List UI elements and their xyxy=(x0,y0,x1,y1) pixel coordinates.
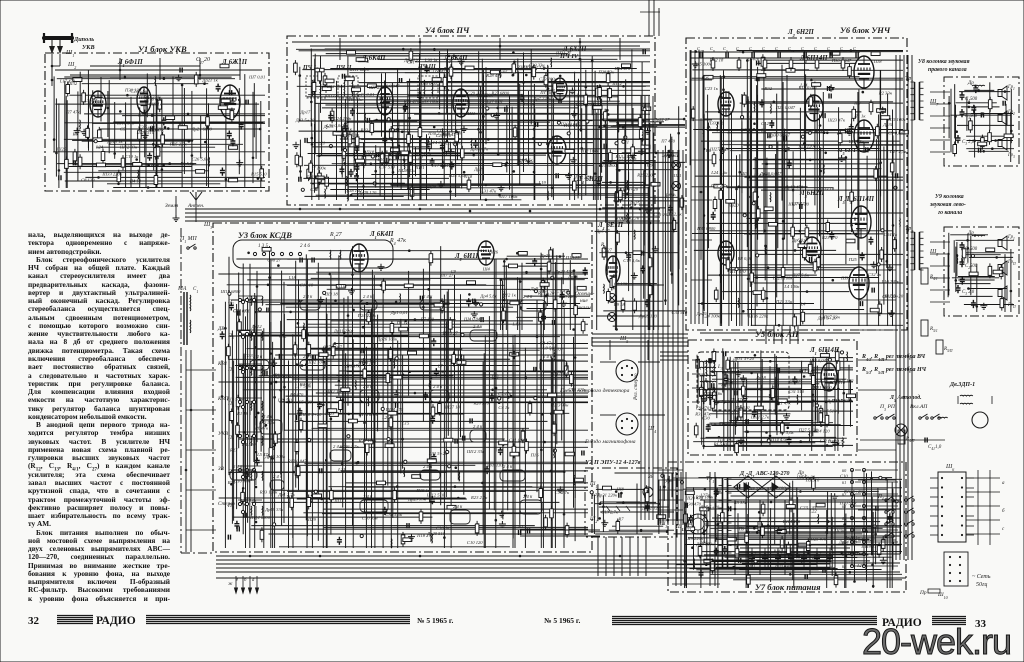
svg-text:2 4 6: 2 4 6 xyxy=(363,294,373,299)
lamp Л7 xyxy=(672,182,681,191)
tube Л1 6Е1П xyxy=(606,256,620,284)
svg-text:Др26 100к: Др26 100к xyxy=(376,337,398,342)
svg-text:Др31: Др31 xyxy=(882,122,893,127)
svg-text:П32 220к: П32 220к xyxy=(574,175,594,180)
svg-text:П5 510: П5 510 xyxy=(805,477,820,482)
svg-text:Др19 100к: Др19 100к xyxy=(264,454,286,459)
bottom terminals ж-а xyxy=(228,576,259,593)
svg-text:L19: L19 xyxy=(512,322,521,327)
output tube Л6 6П14П xyxy=(851,206,871,238)
svg-text:C30 33н: C30 33н xyxy=(529,63,545,68)
svg-text:L21: L21 xyxy=(381,415,389,420)
У6 left vertical bundle xyxy=(691,50,712,324)
lamp Вкл АП xyxy=(895,424,907,436)
svg-text:R2 5+20: R2 5+20 xyxy=(537,291,555,296)
tube Л3 6Н2П b xyxy=(803,237,821,263)
cap C3 xyxy=(956,135,961,143)
block У4 ПЧ border xyxy=(287,36,655,205)
У7 right terminal ladders xyxy=(842,468,898,569)
wires У6 xyxy=(690,49,908,329)
speaker Гр4 xyxy=(998,236,1007,250)
svg-text:R28 510: R28 510 xyxy=(473,401,490,406)
svg-text:Ш11 6800: Ш11 6800 xyxy=(349,67,370,72)
wire antenna feed xyxy=(51,66,53,86)
wires У8 xyxy=(948,82,1014,162)
У7 cable runs xyxy=(700,500,900,575)
multi-pin connector Ш6 xyxy=(930,464,974,542)
svg-text:Земля: Земля xyxy=(165,203,179,209)
svg-text:R2 33н: R2 33н xyxy=(878,90,893,95)
dipole antenna УКВ xyxy=(44,33,72,80)
svg-text:ДВ: ДВ xyxy=(217,326,225,332)
svg-text:Др11 220к: Др11 220к xyxy=(333,329,355,334)
svg-text:L21: L21 xyxy=(491,374,499,379)
svg-text:L7: L7 xyxy=(437,364,444,369)
svg-text:R24 510: R24 510 xyxy=(829,380,846,385)
svg-text:L19: L19 xyxy=(538,180,547,185)
svg-text:L19 1к: L19 1к xyxy=(148,102,163,107)
svg-text:Ш13 33н: Ш13 33н xyxy=(550,402,569,407)
svg-text:Ш21 27: Ш21 27 xyxy=(555,50,572,55)
svg-text:L9 510: L9 510 xyxy=(542,345,557,350)
wires to top edge xyxy=(640,0,660,36)
motor coil Дв xyxy=(958,395,992,404)
svg-text:R30: R30 xyxy=(137,113,146,118)
svg-text:2 4 6: 2 4 6 xyxy=(473,424,483,429)
tube Л2 6Н2П a xyxy=(718,92,734,116)
svg-text:Др31 5+20: Др31 5+20 xyxy=(732,356,755,361)
svg-text:П21 33н: П21 33н xyxy=(775,299,793,304)
output transformer Тр2 xyxy=(911,232,924,270)
svg-text:П25: П25 xyxy=(848,257,858,262)
svg-text:Ш26: Ш26 xyxy=(488,250,499,255)
svg-text:R9 18: R9 18 xyxy=(613,302,626,307)
svg-text:R7 120: R7 120 xyxy=(420,316,435,321)
svg-text:Др20: Др20 xyxy=(728,203,740,208)
svg-text:Ш14 6800: Ш14 6800 xyxy=(249,515,270,520)
turntable pickup circle xyxy=(600,487,653,511)
svg-text:C5 47к: C5 47к xyxy=(498,391,512,396)
svg-text:Ш5 33н: Ш5 33н xyxy=(346,97,363,102)
output tube Л5 6П14П xyxy=(854,120,874,152)
svg-text:C17: C17 xyxy=(347,135,355,140)
svg-text:Ш3: Ш3 xyxy=(740,171,749,176)
svg-text:R6: R6 xyxy=(72,132,79,137)
svg-text:R30 470: R30 470 xyxy=(685,501,702,506)
svg-text:Др26: Др26 xyxy=(567,274,579,279)
svg-text:C9: C9 xyxy=(451,269,457,274)
svg-text:65: 65 xyxy=(842,528,846,533)
svg-text:C33 100к: C33 100к xyxy=(770,486,789,491)
svg-text:Ш10 27: Ш10 27 xyxy=(442,331,459,336)
dial lamp Л9 xyxy=(608,313,617,322)
svg-text:Др33 100к: Др33 100к xyxy=(418,99,440,104)
switch contacts АП xyxy=(860,414,948,451)
bus wires middle right xyxy=(592,334,688,360)
svg-text:Гнездо магнитофона: Гнездо магнитофона xyxy=(584,438,636,445)
svg-text:C10: C10 xyxy=(840,473,848,478)
svg-text:R17 5+20: R17 5+20 xyxy=(884,294,904,299)
svg-text:Ш27 220к: Ш27 220к xyxy=(709,146,730,151)
svg-text:2 4 6: 2 4 6 xyxy=(303,354,313,359)
IF transformer ПЧI xyxy=(306,76,326,98)
svg-text:L4 1к: L4 1к xyxy=(523,102,535,107)
tube Л2 6Н2П b xyxy=(805,95,823,121)
block У3 КСДВ border xyxy=(213,223,592,552)
svg-text:Др24 470: Др24 470 xyxy=(838,539,858,544)
svg-text:R32: R32 xyxy=(764,86,773,91)
svg-text:Ш28 33н: Ш28 33н xyxy=(397,168,416,173)
svg-text:C20: C20 xyxy=(415,155,423,160)
svg-text:Вкл.АП: Вкл.АП xyxy=(910,404,928,410)
У7 left vertical wires xyxy=(672,472,720,586)
block У6 УНЧ border xyxy=(686,38,907,330)
svg-text:У6 блок УНЧ: У6 блок УНЧ xyxy=(840,25,891,35)
lamp Л6 xyxy=(672,161,681,170)
svg-text:20-wek.ru: 20-wek.ru xyxy=(862,621,1011,662)
svg-text:П18 27: П18 27 xyxy=(416,533,431,538)
tube Л3 6Н2П a xyxy=(718,241,734,265)
svg-text:П33 470: П33 470 xyxy=(707,120,725,125)
svg-text:П11 33н: П11 33н xyxy=(428,370,445,375)
block У9 border xyxy=(944,227,1019,316)
svg-text:R7: R7 xyxy=(617,517,624,522)
tube Л1 triode b xyxy=(137,87,151,113)
svg-text:R25 470: R25 470 xyxy=(403,99,420,104)
svg-text:№ 5 1965 г.: № 5 1965 г. xyxy=(544,616,580,625)
svg-text:Др29 470: Др29 470 xyxy=(554,269,574,274)
svg-text:C9 470: C9 470 xyxy=(696,405,710,410)
svg-text:2 4 6: 2 4 6 xyxy=(473,324,483,329)
cap C5 500 xyxy=(960,109,965,117)
footer rule right a xyxy=(612,617,877,625)
tube Л2 6К4П xyxy=(453,89,469,117)
svg-text:R15 510: R15 510 xyxy=(250,171,267,176)
svg-text:C21: C21 xyxy=(772,383,780,388)
svg-text:Др13 1к: Др13 1к xyxy=(106,139,123,144)
svg-text:У8 колонка звуковая: У8 колонка звуковая xyxy=(918,59,970,65)
svg-text:2 4 6: 2 4 6 xyxy=(333,444,343,449)
vertical bus Рег стерео xyxy=(641,96,653,520)
svg-text:2 4 6: 2 4 6 xyxy=(253,354,263,359)
svg-text:Ш23 47к: Ш23 47к xyxy=(827,118,846,123)
svg-text:L14 220к: L14 220к xyxy=(753,172,772,177)
svg-text:У5 блок АП: У5 блок АП xyxy=(755,329,799,339)
svg-text:R13 510: R13 510 xyxy=(615,154,632,159)
svg-text:C23 1к: C23 1к xyxy=(705,86,719,91)
svg-text:Ш32: Ш32 xyxy=(67,81,78,86)
speaker Гр6 xyxy=(998,286,1007,300)
right side vertical bus xyxy=(858,55,912,560)
svg-text:2 4 6: 2 4 6 xyxy=(363,494,373,499)
П1 contact box КСДВ xyxy=(233,240,393,268)
fuse Пр xyxy=(928,589,940,593)
coil column left КСДВ xyxy=(241,296,262,523)
svg-text:C1 6800: C1 6800 xyxy=(429,69,445,74)
contact group boxes КСДВ xyxy=(230,294,567,524)
svg-text:Др5 27: Др5 27 xyxy=(595,229,610,234)
wires У2 xyxy=(588,473,674,534)
svg-text:П11 470: П11 470 xyxy=(729,269,746,274)
block У1 УКВ border xyxy=(45,53,269,191)
svg-text:C17 510: C17 510 xyxy=(379,165,395,170)
block У2 ЭПУ border xyxy=(585,468,677,537)
svg-text:Ш4: Ш4 xyxy=(482,267,491,272)
band switch column labels xyxy=(217,326,235,507)
speaker Гр2 xyxy=(998,111,1007,125)
svg-text:L18: L18 xyxy=(288,275,297,280)
block У5 АП border xyxy=(688,340,857,455)
svg-text:Др8 100к: Др8 100к xyxy=(695,542,715,547)
connector Гнездо полярного детектора xyxy=(600,340,660,382)
svg-text:Ш8 33н: Ш8 33н xyxy=(747,486,764,491)
speaker wiring extra У9 xyxy=(930,242,950,302)
svg-text:У3 блок КСДВ: У3 блок КСДВ xyxy=(238,230,292,240)
svg-text:Ш17 1к: Ш17 1к xyxy=(325,388,342,393)
svg-text:Ш12 33н: Ш12 33н xyxy=(466,449,485,454)
svg-text:1 3 5: 1 3 5 xyxy=(258,244,269,249)
speaker Гр1 xyxy=(998,86,1007,100)
svg-text:Ш14 47к: Ш14 47к xyxy=(768,437,787,442)
svg-text:Др31 220к: Др31 220к xyxy=(596,493,618,498)
svg-text:C1 47к: C1 47к xyxy=(556,289,570,294)
bridge rectifier 1 xyxy=(734,476,762,498)
motor circle xyxy=(972,412,988,428)
svg-text:C4 47к: C4 47к xyxy=(540,340,554,345)
svg-text:У1 блок УКВ: У1 блок УКВ xyxy=(138,44,187,54)
svg-text:У7 блок питания: У7 блок питания xyxy=(755,582,821,592)
output tube Л7 6П14П xyxy=(849,267,869,299)
svg-text:П28 33н: П28 33н xyxy=(597,69,615,74)
svg-text:L32: L32 xyxy=(810,385,819,390)
svg-text:П3 510: П3 510 xyxy=(735,405,750,410)
svg-text:Ш27 18: Ш27 18 xyxy=(444,405,461,410)
svg-text:C33 510: C33 510 xyxy=(672,310,688,315)
svg-text:C12: C12 xyxy=(279,334,287,339)
svg-text:C4 1к: C4 1к xyxy=(498,405,510,410)
footer rule left b xyxy=(146,616,410,624)
cap C7 500 xyxy=(960,259,965,267)
svg-text:Др16 47к: Др16 47к xyxy=(143,96,163,101)
tube Л1 6К4П xyxy=(350,244,368,272)
svg-text:Ш3 18: Ш3 18 xyxy=(324,292,339,297)
svg-text:R1 18: R1 18 xyxy=(236,411,249,416)
choke Др1 у7 xyxy=(800,476,813,479)
svg-text:L10 220к: L10 220к xyxy=(881,279,900,284)
svg-text:50гц: 50гц xyxy=(976,582,987,588)
pot R5/1 xyxy=(921,320,938,336)
wires У4 xyxy=(293,48,651,205)
svg-text:L10 18: L10 18 xyxy=(377,157,392,162)
wires У9 xyxy=(948,233,1014,312)
pot R4/1 xyxy=(921,268,938,284)
svg-text:Ш11: Ш11 xyxy=(465,111,475,116)
svg-text:Др17: Др17 xyxy=(300,109,312,114)
svg-text:Др19 33н: Др19 33н xyxy=(264,507,284,512)
svg-text:Др21 6800: Др21 6800 xyxy=(191,126,213,131)
svg-text:R25 220к: R25 220к xyxy=(636,173,655,178)
svg-text:П1 1к: П1 1к xyxy=(396,320,409,325)
svg-text:П33: П33 xyxy=(244,353,254,358)
svg-text:МА: МА xyxy=(177,286,187,292)
svg-text:R1 510: R1 510 xyxy=(713,442,728,447)
П4 switch contacts right lower xyxy=(877,494,914,537)
svg-text:П24 220к: П24 220к xyxy=(357,313,377,318)
svg-text:Др10 47к: Др10 47к xyxy=(470,147,490,152)
svg-text:38: 38 xyxy=(647,474,654,480)
svg-text:го канала: го канала xyxy=(938,210,962,216)
svg-text:L33 47к: L33 47к xyxy=(148,127,165,132)
svg-text:L31 27: L31 27 xyxy=(83,98,98,103)
bridge rectifier 2 xyxy=(762,476,790,498)
КСДВ right top extra wires xyxy=(500,252,591,334)
svg-text:L8 1к: L8 1к xyxy=(340,126,352,131)
svg-text:R25: R25 xyxy=(227,480,236,485)
svg-text:2 4 6: 2 4 6 xyxy=(233,464,243,469)
footer rule right b xyxy=(932,617,966,625)
svg-text:C24 220к: C24 220к xyxy=(334,116,353,121)
svg-text:R22: R22 xyxy=(360,128,369,133)
svg-text:R12 1к: R12 1к xyxy=(502,292,517,297)
svg-text:П4 18: П4 18 xyxy=(129,179,142,184)
svg-text:L15: L15 xyxy=(401,420,410,425)
svg-text:Др23 33н: Др23 33н xyxy=(407,497,427,502)
svg-text:R23 470: R23 470 xyxy=(821,235,838,240)
У5 input coils extra xyxy=(692,356,724,404)
svg-text:C12 1к: C12 1к xyxy=(761,121,775,126)
svg-text:R14 33н: R14 33н xyxy=(615,216,632,221)
svg-text:П1 1к: П1 1к xyxy=(853,113,866,118)
svg-text:2 4 6: 2 4 6 xyxy=(523,494,533,499)
svg-text:У4 блок ПЧ: У4 блок ПЧ xyxy=(425,25,470,35)
choke Др2 xyxy=(972,234,985,237)
svg-text:П25 47к: П25 47к xyxy=(810,536,828,541)
svg-text:64: 64 xyxy=(842,516,846,521)
svg-text:П14 510: П14 510 xyxy=(831,398,849,403)
tube Л5 6Х2П xyxy=(553,78,567,100)
svg-text:C23 100к: C23 100к xyxy=(539,77,558,82)
tube Л3 6К4П xyxy=(377,87,393,115)
svg-text:П29: П29 xyxy=(644,163,654,168)
svg-text:Ш24 470: Ш24 470 xyxy=(385,407,404,412)
svg-text:32: 32 xyxy=(28,615,40,627)
IF transformer ПЧII xyxy=(338,76,358,98)
pot R5/2 xyxy=(936,340,953,354)
svg-text:Др12: Др12 xyxy=(251,324,263,329)
У6 to У5 vertical connections xyxy=(700,326,860,344)
svg-text:Ш25: Ш25 xyxy=(56,147,67,152)
svg-text:П16: П16 xyxy=(530,453,540,458)
chassis chain line left xyxy=(180,228,182,553)
svg-text:Ш33 120: Ш33 120 xyxy=(357,361,376,366)
connector Ш9 rows xyxy=(944,552,968,586)
svg-text:Др18: Др18 xyxy=(755,375,767,380)
svg-text:ж: ж xyxy=(228,582,233,587)
svg-text:C31 510: C31 510 xyxy=(788,389,804,394)
У4 top bus wires xyxy=(292,38,650,60)
svg-text:Ш21 100к: Ш21 100к xyxy=(772,276,793,281)
footer rule left a xyxy=(57,616,93,624)
svg-text:П7 470: П7 470 xyxy=(660,139,675,144)
svg-text:L18 120: L18 120 xyxy=(346,188,363,193)
svg-text:2 4 6: 2 4 6 xyxy=(503,464,513,469)
svg-text:C10 33н: C10 33н xyxy=(362,515,378,520)
svg-text:Др29: Др29 xyxy=(696,311,708,316)
svg-text:L15 33н: L15 33н xyxy=(848,139,865,144)
svg-text:ние: ние xyxy=(580,298,588,304)
dial lamp Л8 xyxy=(608,294,617,303)
left edge wires xyxy=(185,350,216,552)
svg-text:Др29 220к: Др29 220к xyxy=(802,128,824,133)
svg-text:Др24: Др24 xyxy=(473,167,485,172)
tube Л4 6Н2П xyxy=(548,136,566,164)
svg-text:L32 5+20: L32 5+20 xyxy=(428,451,448,456)
IF transformer ПЧIII xyxy=(418,76,438,98)
svg-text:П33: П33 xyxy=(379,97,389,102)
ground terminal Земля xyxy=(173,196,180,221)
svg-text:РАДИО: РАДИО xyxy=(96,615,136,627)
svg-text:Др33 33н: Др33 33н xyxy=(544,88,564,93)
svg-text:2 4 6: 2 4 6 xyxy=(303,294,313,299)
svg-text:Др7 220к: Др7 220к xyxy=(532,96,552,101)
svg-text:R1: R1 xyxy=(517,524,523,529)
svg-text:R27: R27 xyxy=(229,447,238,452)
svg-text:Гнездо полярного детектора: Гнездо полярного детектора xyxy=(559,387,630,394)
svg-text:Др3 5+20: Др3 5+20 xyxy=(295,118,315,123)
svg-text:Антен.: Антен. xyxy=(187,203,204,209)
wires У5 xyxy=(693,348,855,455)
У2 to bus verticals xyxy=(520,530,646,576)
tube Л2 6И1П xyxy=(478,241,494,265)
svg-text:C1 120: C1 120 xyxy=(614,282,628,287)
speaker Гр5 xyxy=(998,261,1007,275)
svg-text:C10 120: C10 120 xyxy=(467,540,483,545)
svg-text:L10: L10 xyxy=(702,126,711,131)
svg-text:правого канала: правого канала xyxy=(928,67,967,73)
svg-text:62: 62 xyxy=(842,492,846,497)
svg-text:Диполь: Диполь xyxy=(73,36,94,43)
svg-text:C8 120: C8 120 xyxy=(81,178,95,183)
switch П1 xyxy=(187,244,196,249)
connector Гнездо магнитофона xyxy=(600,413,665,435)
svg-text:звуковая лево-: звуковая лево- xyxy=(929,202,966,208)
svg-text:R11 6800: R11 6800 xyxy=(443,141,462,146)
magnetic antenna МА xyxy=(177,286,198,345)
svg-text:Ш18 510: Ш18 510 xyxy=(116,121,135,126)
svg-text:П24 470: П24 470 xyxy=(614,66,632,71)
svg-text:61: 61 xyxy=(842,480,846,485)
svg-text:П7 47к: П7 47к xyxy=(65,110,80,115)
svg-text:2 4 6: 2 4 6 xyxy=(423,294,433,299)
svg-text:2 4 6: 2 4 6 xyxy=(363,384,373,389)
svg-text:Ш8: Ш8 xyxy=(616,487,625,492)
cap C4 500 xyxy=(960,92,965,100)
svg-text:П17 100к: П17 100к xyxy=(498,194,518,199)
svg-text:R6 47к: R6 47к xyxy=(254,425,269,430)
tube Л1 6П14П у5 xyxy=(821,363,837,391)
svg-text:2 4 6: 2 4 6 xyxy=(543,354,553,359)
svg-text:2 4 6: 2 4 6 xyxy=(453,504,463,509)
svg-text:Дв: Дв xyxy=(665,478,672,484)
svg-text:L21: L21 xyxy=(317,140,325,145)
switch contact rows П3-П9 xyxy=(227,296,262,510)
svg-text:63: 63 xyxy=(842,504,846,509)
svg-text:Ш33 220к: Ш33 220к xyxy=(101,172,122,177)
У4 lower left extra wires xyxy=(299,120,463,201)
electrolytic capacitor row У7 xyxy=(740,548,850,572)
svg-text:Ш28 5+20: Ш28 5+20 xyxy=(300,412,322,417)
tube Л1 6Ф1П xyxy=(90,91,106,117)
